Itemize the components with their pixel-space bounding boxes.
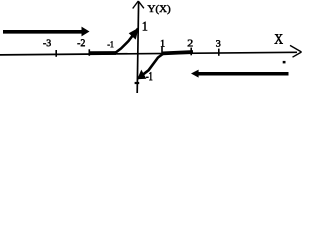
function segment y=0 from -2 to -1	[90, 51, 117, 55]
tick 1	[161, 47, 163, 53]
tick -3	[55, 50, 57, 57]
falling ramp arrowhead	[137, 70, 146, 80]
label -2	[78, 39, 85, 46]
label -1	[108, 41, 114, 47]
x-axis arrowhead	[290, 45, 302, 57]
stray mark	[283, 61, 286, 64]
x-axis label X	[275, 34, 283, 43]
y-axis arrowhead	[133, 1, 144, 9]
label 2	[188, 40, 193, 47]
y label 1	[143, 22, 147, 31]
y-axis	[137, 2, 138, 93]
label 1	[161, 40, 165, 47]
y label -1	[146, 72, 152, 80]
tick -2	[88, 49, 90, 56]
left annotation arrow	[3, 27, 90, 37]
falling ramp	[137, 54, 163, 80]
right annotation arrow	[191, 70, 289, 78]
function segment below axis from 1 to 2	[163, 52, 194, 53]
rising ramp	[115, 28, 139, 53]
label 3	[216, 40, 220, 46]
x-axis	[0, 52, 297, 55]
y-axis lower tick	[135, 82, 140, 84]
rising ramp arrowhead	[129, 28, 139, 40]
tick 2	[190, 48, 192, 56]
tick 3	[218, 49, 220, 56]
label -3	[43, 40, 51, 47]
y-axis label Y(X)	[148, 5, 171, 14]
